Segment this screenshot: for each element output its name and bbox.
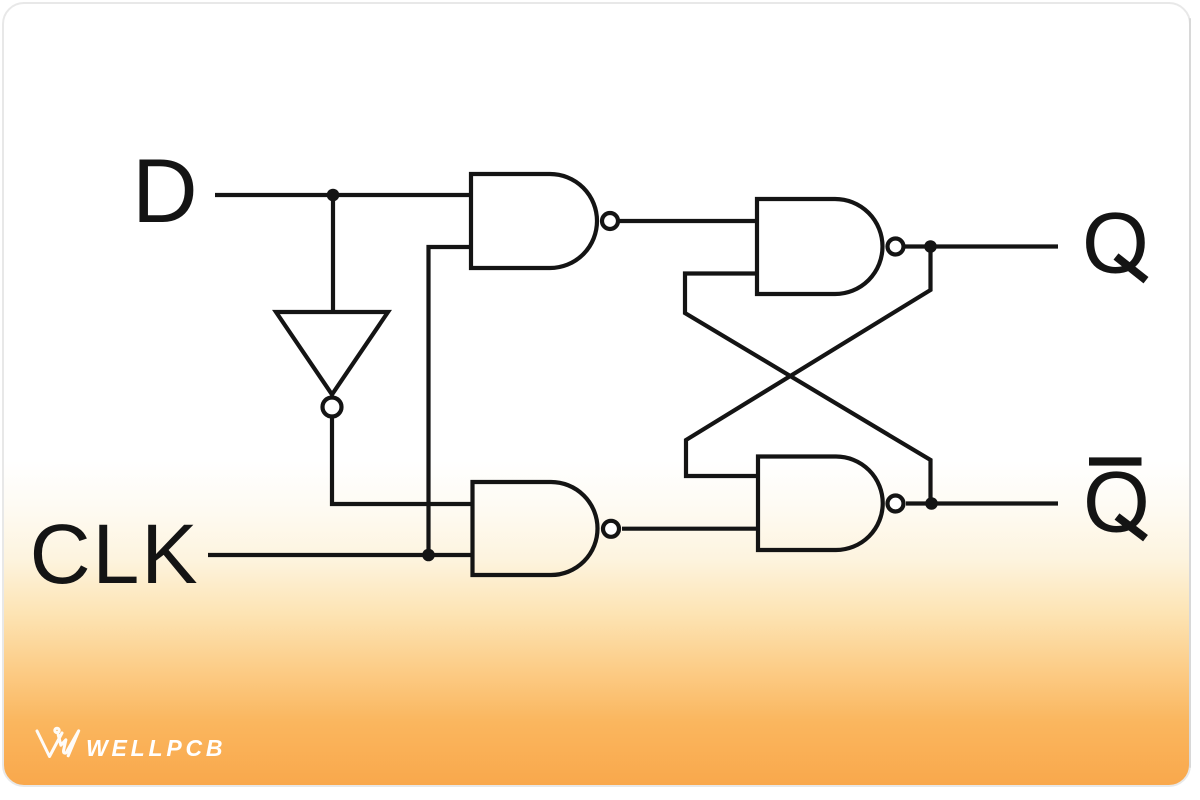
wire D to inverter: [331, 195, 335, 312]
wire U1 output to U3 top input: [620, 219, 758, 223]
inverter U5 triangle: [276, 312, 388, 395]
tail of Q-bar glyph: [1117, 517, 1146, 539]
overbar of Q-bar: [1089, 457, 1142, 465]
wire Q-bar output: [906, 501, 1058, 505]
wire CLK input: [208, 553, 472, 557]
wire Q output: [905, 244, 1058, 248]
NAND gate U3 body: [757, 199, 883, 294]
inverter U5 output bubble: [323, 398, 342, 417]
NAND gate U3 output bubble: [888, 239, 904, 255]
svg-text:WELLPCB: WELLPCB: [86, 735, 226, 761]
junction dot on D line: [327, 189, 340, 202]
tail of Q glyph: [1116, 257, 1146, 281]
junction dot node Q: [924, 240, 937, 253]
NAND gate U1 output bubble: [602, 213, 618, 229]
wire inverter output to gate U2 top input: [332, 417, 472, 504]
NAND gate U2 body: [473, 482, 598, 575]
NAND gate U2 output bubble: [603, 521, 619, 537]
wire Q feedback to U4 top input: [686, 247, 931, 477]
NAND gate U4 output bubble: [888, 496, 904, 512]
NAND gate U4 body: [758, 457, 883, 551]
junction dot node Q-bar: [925, 497, 938, 510]
wire D input: [215, 193, 471, 197]
wire U2 output to U4 bottom input: [622, 527, 758, 531]
junction dot on CLK line: [422, 549, 435, 562]
NAND gate U1 body: [471, 174, 597, 268]
wire Q-bar feedback to U3 bottom input: [685, 274, 931, 504]
wire CLK to gate U1 lower input: [429, 247, 472, 555]
